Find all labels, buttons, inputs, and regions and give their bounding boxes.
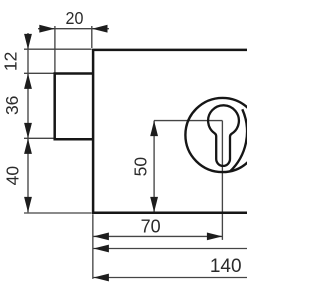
svg-text:140: 140 — [210, 256, 242, 277]
svg-text:50: 50 — [131, 157, 151, 177]
svg-text:70: 70 — [141, 216, 161, 236]
svg-text:40: 40 — [3, 166, 23, 186]
svg-text:12: 12 — [1, 52, 21, 71]
svg-text:20: 20 — [66, 8, 84, 28]
svg-text:36: 36 — [2, 96, 22, 115]
